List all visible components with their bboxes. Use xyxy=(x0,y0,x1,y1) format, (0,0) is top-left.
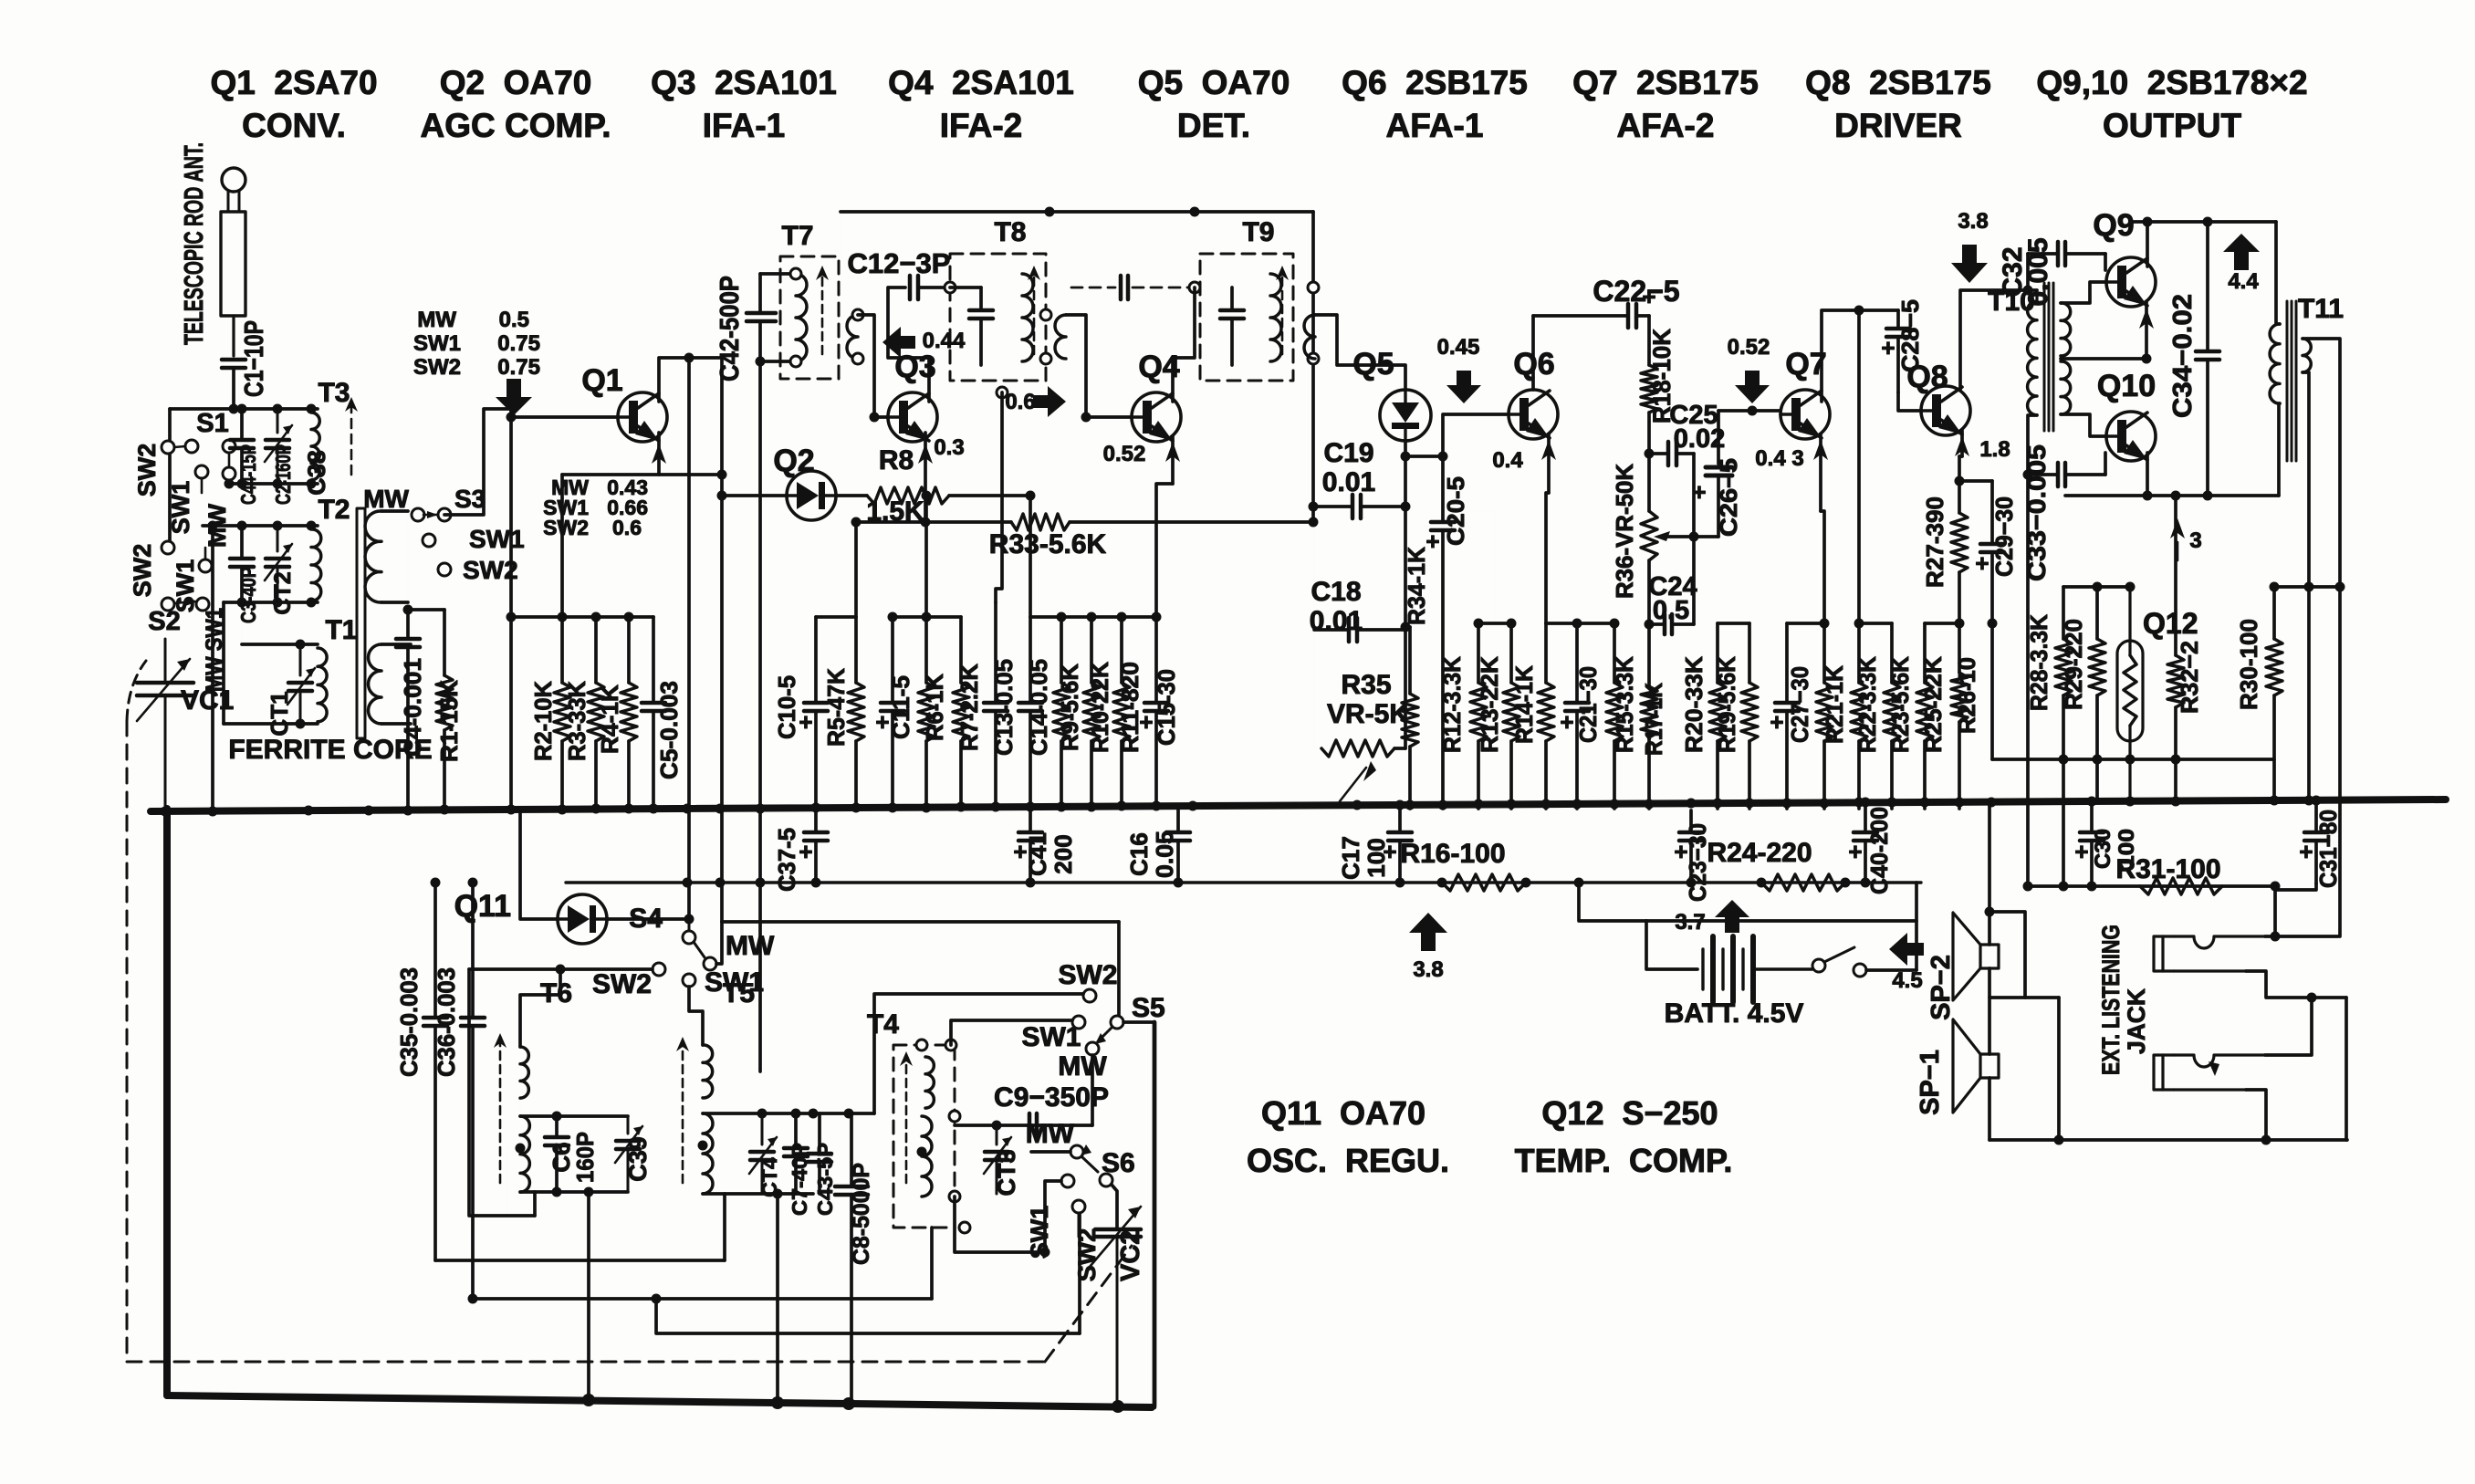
svg-text:C31−80: C31−80 xyxy=(2314,810,2342,888)
svg-text:C40-200: C40-200 xyxy=(1865,807,1893,894)
T4 tuning arrow xyxy=(905,1057,908,1183)
svg-text:R12-3.3K: R12-3.3K xyxy=(1438,656,1466,753)
power switch xyxy=(1812,959,1825,972)
coil T1 xyxy=(318,648,327,722)
wire speaker hot line xyxy=(2274,585,2340,589)
thick right vertical xyxy=(1153,1022,1157,1407)
wire SP2 bottom stub xyxy=(1988,968,1991,998)
svg-text:T1: T1 xyxy=(325,615,357,645)
svg-text:R13-22K: R13-22K xyxy=(1476,656,1503,753)
wire top rail IF xyxy=(841,210,1313,214)
wire Q1 collector up xyxy=(659,358,722,402)
svg-text:R14-1K: R14-1K xyxy=(1510,665,1538,744)
svg-text:R9-5.6K: R9-5.6K xyxy=(1056,664,1083,751)
svg-text:R1-15K: R1-15K xyxy=(435,680,463,762)
IF transformer T9 box xyxy=(1200,254,1293,381)
wire T1 top rail xyxy=(242,643,318,646)
svg-text:R8: R8 xyxy=(879,445,914,476)
svg-text:+: + xyxy=(1674,838,1687,865)
T9 primary coil xyxy=(1270,274,1281,361)
svg-text:0.3: 0.3 xyxy=(934,435,964,460)
svg-text:0.01: 0.01 xyxy=(1322,467,1375,497)
svg-text:JACK: JACK xyxy=(2123,988,2150,1054)
wire C33 to R31 xyxy=(2026,475,2030,886)
svg-text:Q2: Q2 xyxy=(773,444,814,478)
wire long vertical Q1-S4 xyxy=(687,358,691,919)
svg-text:+: + xyxy=(1013,838,1027,865)
wire T9 sec to Q5 xyxy=(1315,315,1405,390)
wire Q4 emitter down xyxy=(1171,436,1175,484)
bus junction dots xyxy=(161,807,171,817)
svg-text:S1: S1 xyxy=(196,409,228,438)
T6 tuning arrow xyxy=(499,1039,502,1183)
svg-text:C1−10P: C1−10P xyxy=(240,320,269,397)
svg-text:+: + xyxy=(1560,708,1573,736)
svg-text:200: 200 xyxy=(1050,834,1077,873)
svg-text:DRIVER: DRIVER xyxy=(1834,107,1962,144)
antenna neck xyxy=(227,192,230,212)
capacitor C3-40P xyxy=(240,526,244,559)
wire R12 feed xyxy=(1443,511,1495,623)
T9 internal cap xyxy=(1230,287,1234,310)
wire T8 sec to Q4 xyxy=(1066,315,1132,417)
wire rail R14-C21-R15 xyxy=(1546,622,1614,625)
svg-text:SW1: SW1 xyxy=(172,559,199,613)
svg-text:R34-1K: R34-1K xyxy=(1403,547,1430,625)
wire web line D xyxy=(656,1299,1080,1333)
wire T1 secondary to S3 xyxy=(410,616,412,644)
T8 internal cap xyxy=(979,287,983,310)
trimmer C2-160P xyxy=(266,438,289,443)
wire S3 to Q1 rail xyxy=(444,409,511,515)
wire battery left lead xyxy=(1646,921,1697,969)
svg-text:R36-VR-50K: R36-VR-50K xyxy=(1611,464,1638,599)
arrow 0.44 xyxy=(882,327,915,358)
svg-text:Q12: Q12 xyxy=(2143,607,2198,640)
dashed gang line vertical xyxy=(126,721,129,1362)
svg-text:TELESCOPIC ROD ANT.: TELESCOPIC ROD ANT. xyxy=(180,142,209,345)
svg-text:0.01: 0.01 xyxy=(1310,606,1363,636)
resistor R34-1K xyxy=(1408,627,1412,694)
svg-text:EXT. LISTENING: EXT. LISTENING xyxy=(2097,925,2125,1075)
svg-text:Q9,10 2SB178×2: Q9,10 2SB178×2 xyxy=(2036,64,2307,101)
wire battery branch xyxy=(1579,883,1646,921)
wire rail R12-R13 xyxy=(1478,622,1511,625)
wire jack lower tip lead xyxy=(2265,998,2312,1055)
wire T11 sec bottom to bus xyxy=(2303,372,2309,800)
wire Q4 collector up xyxy=(1173,287,1195,402)
svg-text:CT4: CT4 xyxy=(757,1157,781,1197)
T8 primary coil xyxy=(1022,274,1033,361)
svg-text:Q1 2SA70: Q1 2SA70 xyxy=(210,64,377,101)
wire Q9 emitter xyxy=(2145,301,2148,359)
trimmer CT1 xyxy=(288,681,312,685)
coil T2 xyxy=(311,529,321,601)
svg-text:T2: T2 xyxy=(318,495,350,525)
svg-text:MW: MW xyxy=(726,931,775,961)
T7 primary coil xyxy=(796,274,807,361)
svg-text:Q8: Q8 xyxy=(1906,360,1948,394)
antenna rod xyxy=(221,212,245,316)
wire C9 CT3 line xyxy=(955,1123,1092,1127)
svg-text:+: + xyxy=(1848,838,1862,865)
wire Q9 collector xyxy=(2146,222,2149,266)
resistor R10-22K xyxy=(1090,617,1093,683)
wire T10 center tap xyxy=(2061,357,2146,361)
wire R22 feed xyxy=(1857,310,1861,623)
svg-text:Q10: Q10 xyxy=(2097,369,2156,403)
wire output top rail xyxy=(2131,220,2276,224)
svg-text:0.52: 0.52 xyxy=(1103,442,1146,466)
T5 upper coil xyxy=(703,1045,713,1098)
T5 lower coil xyxy=(703,1113,713,1194)
wire T5 tap xyxy=(689,1145,703,1194)
wire switch to bus line xyxy=(1866,968,1916,972)
svg-text:4.5: 4.5 xyxy=(1892,968,1922,993)
wire S4 MW to long line xyxy=(716,922,722,964)
resistor R33-5.6K xyxy=(856,520,1011,524)
svg-text:Q5 OA70: Q5 OA70 xyxy=(1138,64,1290,101)
arrow supply 0.75 xyxy=(496,379,532,415)
wire web line C xyxy=(473,1297,932,1301)
wire Q7 collector xyxy=(1822,310,1859,402)
wire T11 sec top to jack xyxy=(2303,339,2340,936)
wire jack lower sleeve xyxy=(2246,1090,2266,1140)
svg-text:T7: T7 xyxy=(781,221,813,251)
wire R28 top rail xyxy=(2063,585,2130,589)
capacitor C4-0.001 xyxy=(406,610,410,639)
svg-text:MW: MW xyxy=(1026,1119,1075,1149)
wire C42 long vertical xyxy=(758,274,762,313)
svg-text:Q1: Q1 xyxy=(581,363,622,398)
wire T10 bottom lead xyxy=(2028,415,2037,475)
T7 tuning arrow xyxy=(821,271,824,354)
svg-text:Q12 S−250: Q12 S−250 xyxy=(1541,1094,1718,1132)
svg-text:VC2: VC2 xyxy=(1116,1230,1145,1281)
svg-text:DET.: DET. xyxy=(1177,107,1250,144)
antenna lead wire xyxy=(232,316,235,356)
svg-text:Q2 OA70: Q2 OA70 xyxy=(440,64,592,101)
wire Q5 cathode down xyxy=(1404,441,1407,627)
svg-text:SP−1: SP−1 xyxy=(1916,1050,1945,1115)
svg-text:C19: C19 xyxy=(1323,438,1373,468)
wire Q1 emitter to R2 xyxy=(562,473,722,476)
svg-text:SW2: SW2 xyxy=(133,444,161,497)
resistor R11-820 xyxy=(1120,617,1123,683)
T8 tuning arrow xyxy=(1033,271,1036,354)
wire S5 SW1 feed xyxy=(951,1020,1072,1045)
svg-text:R6-1K: R6-1K xyxy=(921,674,948,741)
svg-text:R20-33K: R20-33K xyxy=(1680,656,1707,753)
wire C18 left vertical xyxy=(1313,507,1315,748)
T7 secondary coil xyxy=(847,315,858,359)
svg-text:VR-5K: VR-5K xyxy=(1327,699,1409,729)
wire T5 to bottom rail xyxy=(776,1194,779,1403)
IF transformer T7 box xyxy=(780,256,839,379)
wire Q11 left lead xyxy=(520,810,558,919)
wire Q3 collector xyxy=(888,287,929,402)
svg-text:Q11: Q11 xyxy=(454,889,511,924)
coil C38 of T3 xyxy=(311,413,319,480)
T3 tuning arrow xyxy=(350,402,353,475)
svg-text:MW: MW xyxy=(1058,1051,1107,1082)
svg-text:AFA-1: AFA-1 xyxy=(1386,107,1484,144)
thick left vertical xyxy=(163,809,171,1395)
svg-text:0.75: 0.75 xyxy=(497,331,540,356)
svg-text:0.75: 0.75 xyxy=(497,355,540,380)
svg-text:3.8: 3.8 xyxy=(1413,957,1443,982)
wire rail R20-R19 xyxy=(1718,622,1749,625)
svg-text:+: + xyxy=(875,708,889,736)
svg-text:SW1: SW1 xyxy=(167,481,194,535)
svg-text:Q6 2SB175: Q6 2SB175 xyxy=(1342,64,1528,101)
svg-text:C34−0.02: C34−0.02 xyxy=(2168,294,2198,418)
resistor R2-10K xyxy=(560,617,564,683)
wire collector to C28 xyxy=(1859,308,1898,312)
svg-text:S5: S5 xyxy=(1132,993,1165,1023)
wire Q8 collector to T10 xyxy=(1960,290,2037,391)
wire T7 sec to Q3 base xyxy=(858,315,888,417)
svg-text:OUTPUT: OUTPUT xyxy=(2103,107,2242,144)
wire bottom rail T3 block xyxy=(229,482,318,486)
svg-text:Q8 2SB175: Q8 2SB175 xyxy=(1805,64,1991,101)
T8 pins xyxy=(997,387,1008,398)
svg-text:VC1: VC1 xyxy=(181,685,234,716)
svg-text:R29-220: R29-220 xyxy=(2060,619,2087,710)
variable capacitor VC1 xyxy=(137,681,193,685)
svg-text:AFA-2: AFA-2 xyxy=(1617,107,1715,144)
svg-text:T9: T9 xyxy=(1242,217,1274,247)
svg-text:0.52: 0.52 xyxy=(1728,335,1770,360)
svg-text:S4: S4 xyxy=(629,904,663,934)
T6 upper coil xyxy=(520,1047,528,1098)
wire rail R22-R23 xyxy=(1859,622,1892,625)
wire speakers mid rail xyxy=(1991,996,2059,999)
wire left vertical of block xyxy=(168,409,172,548)
capacitor C5-0.003 xyxy=(652,617,655,703)
svg-text:SP−2: SP−2 xyxy=(1927,955,1956,1020)
svg-text:CONV.: CONV. xyxy=(242,107,346,144)
wire left block to bus xyxy=(211,526,214,809)
svg-text:IFA-2: IFA-2 xyxy=(940,107,1022,144)
arrow 1.8 at Q8 emitter xyxy=(1955,436,1969,456)
wire S6 SW1 feed xyxy=(955,1181,1061,1252)
svg-text:S6: S6 xyxy=(1102,1148,1135,1178)
svg-text:SW1: SW1 xyxy=(469,525,525,553)
wire Q2 left lead xyxy=(722,494,787,497)
svg-text:R7-2.2K: R7-2.2K xyxy=(956,664,983,751)
T4 lower coil xyxy=(922,1116,932,1197)
wire S6 MW left xyxy=(1031,1150,1070,1154)
svg-text:+: + xyxy=(1770,708,1783,736)
wire Q6 collector xyxy=(1531,316,1535,390)
T9 secondary coil xyxy=(1304,315,1315,359)
svg-text:C42-500P: C42-500P xyxy=(715,276,745,381)
svg-text:Q4 2SA101: Q4 2SA101 xyxy=(888,64,1074,101)
svg-text:+: + xyxy=(1642,283,1655,310)
svg-text:+: + xyxy=(1975,549,1989,577)
svg-text:CT1: CT1 xyxy=(266,691,293,736)
wire R5 top vertical xyxy=(854,522,858,617)
svg-text:+: + xyxy=(2299,838,2313,865)
trimmer C39 xyxy=(616,1139,640,1144)
svg-text:SW2: SW2 xyxy=(129,544,156,598)
telescopic rod antenna ball xyxy=(222,168,245,192)
svg-text:R35: R35 xyxy=(1341,670,1391,700)
svg-text:T3: T3 xyxy=(318,378,350,408)
wire S4 long line xyxy=(722,920,1119,924)
svg-text:+: + xyxy=(1383,838,1396,865)
wire SW2 to T6 xyxy=(658,969,660,976)
wire mid rail T2 xyxy=(203,524,318,528)
dashed gang diagonal xyxy=(1045,1246,1132,1362)
jack lower contact xyxy=(2154,1055,2174,1090)
svg-text:AGC COMP.: AGC COMP. xyxy=(420,107,611,144)
IF transformer T4 box xyxy=(893,1045,955,1228)
wire T10 sec bottom to Q10 base xyxy=(2061,414,2105,436)
T4 upper coil xyxy=(925,1057,934,1108)
svg-text:C36-0.003: C36-0.003 xyxy=(433,967,460,1077)
svg-text:R30-100: R30-100 xyxy=(2235,619,2262,710)
resistor R9-5.6K xyxy=(1060,617,1063,683)
svg-text:OSC. REGU.: OSC. REGU. xyxy=(1247,1142,1449,1179)
wire r9-c15 rail xyxy=(1061,615,1156,619)
ferrite core bar xyxy=(357,508,365,738)
wire rail R25-R26 xyxy=(1925,622,1959,625)
trimmer CT4 xyxy=(750,1150,774,1155)
svg-text:+: + xyxy=(1692,478,1706,506)
arrow 3.8 below R16 xyxy=(1409,913,1447,951)
wire R6 top vertical xyxy=(924,496,928,617)
arrow 4.4 xyxy=(2223,234,2260,270)
wire SP1 bottom xyxy=(1988,1078,1991,1140)
svg-text:Q7 2SB175: Q7 2SB175 xyxy=(1572,64,1759,101)
svg-text:R2-10K: R2-10K xyxy=(529,681,557,761)
svg-text:CT3: CT3 xyxy=(993,1149,1020,1196)
svg-text:0.6: 0.6 xyxy=(612,516,642,539)
svg-text:SW2: SW2 xyxy=(543,516,589,539)
resistor R5-47K xyxy=(854,617,858,683)
svg-text:R3-33K: R3-33K xyxy=(563,681,590,761)
wire S5 pivot to right xyxy=(1123,1020,1154,1024)
wire T1 bottom rail xyxy=(224,722,318,726)
svg-text:C4-0.001: C4-0.001 xyxy=(399,658,426,757)
svg-text:+: + xyxy=(799,838,812,865)
wire T11 primary bottom xyxy=(2279,403,2280,496)
svg-text:T6: T6 xyxy=(540,978,572,1008)
wire T6 tap line xyxy=(507,1148,520,1216)
lower line junction dots xyxy=(683,878,693,888)
svg-text:C39: C39 xyxy=(624,1136,652,1182)
svg-text:C12−3P: C12−3P xyxy=(848,247,951,279)
wire jack upper tip lead xyxy=(2265,935,2338,938)
svg-text:0.4: 0.4 xyxy=(1492,448,1523,473)
svg-text:0.4 3: 0.4 3 xyxy=(1755,446,1803,471)
wire SP2 parallel branch xyxy=(1989,912,2025,998)
svg-text:R11-820: R11-820 xyxy=(1116,662,1144,753)
svg-text:C35-0.003: C35-0.003 xyxy=(395,967,423,1077)
svg-text:SW1: SW1 xyxy=(1021,1022,1081,1052)
wire C28 to Q8 base xyxy=(1898,392,1921,411)
svg-text:+: + xyxy=(2074,838,2088,865)
wire long vertical Q2-S4 xyxy=(720,358,724,922)
svg-text:T4: T4 xyxy=(867,1009,899,1040)
wire CT3 bottom rail xyxy=(955,1196,997,1197)
svg-text:R33-5.6K: R33-5.6K xyxy=(989,529,1107,559)
feedback line R31 xyxy=(2028,884,2275,888)
svg-text:S3: S3 xyxy=(454,485,486,513)
svg-text:0.5: 0.5 xyxy=(499,308,529,332)
wire T7 sec bottom xyxy=(841,359,858,379)
wire SP1 top xyxy=(1990,998,1992,1054)
resistor R6-1K xyxy=(924,617,928,683)
svg-text:4.4: 4.4 xyxy=(2228,269,2259,294)
wire jack bottom rail xyxy=(1989,1138,2347,1142)
svg-text:C16: C16 xyxy=(1125,832,1153,876)
svg-text:C2-160P: C2-160P xyxy=(271,444,295,505)
svg-text:3: 3 xyxy=(2189,528,2201,553)
wire Q11 right lead xyxy=(607,917,689,921)
svg-text:+: + xyxy=(1881,334,1895,361)
wire C25 riser xyxy=(1692,454,1696,624)
resistor R7-2.2K xyxy=(959,617,963,683)
wire S4 SW1 to T5 xyxy=(689,987,703,1045)
svg-text:R4-1K: R4-1K xyxy=(596,685,623,754)
wire T2 bottom rail xyxy=(224,601,318,604)
wire S6 pivot to VC2 xyxy=(1112,1185,1117,1229)
wire web line B xyxy=(435,1259,725,1262)
T9 tuning arrow xyxy=(1281,271,1284,354)
wire web line A xyxy=(469,967,560,971)
capacitor C1-10P xyxy=(222,358,245,362)
wire T6 to bottom rail xyxy=(587,1192,590,1400)
arrow 3 upward xyxy=(2170,518,2185,538)
svg-text:+: + xyxy=(799,708,812,736)
arrow 3.7 below R24 xyxy=(1715,900,1749,933)
T6 lower coil xyxy=(520,1116,529,1192)
wire bias rail R2-C5 xyxy=(511,615,653,619)
svg-text:0.45: 0.45 xyxy=(1437,335,1480,360)
dashed gang line horizontal xyxy=(127,1361,1045,1364)
svg-text:3.8: 3.8 xyxy=(1958,209,1988,234)
wire top rail T3 block xyxy=(170,407,318,411)
svg-text:MW: MW xyxy=(417,308,456,332)
wire Q7 emitter xyxy=(1819,434,1822,511)
T4 pins xyxy=(916,1040,927,1050)
resistor R3-33K xyxy=(594,617,598,683)
bottom rail junction dots xyxy=(582,1394,595,1406)
svg-text:SW2: SW2 xyxy=(1058,960,1117,990)
svg-text:C18: C18 xyxy=(1311,577,1361,607)
wire Q8 emitter xyxy=(1960,431,1964,456)
svg-text:TEMP. COMP.: TEMP. COMP. xyxy=(1515,1142,1733,1179)
svg-text:T8: T8 xyxy=(994,217,1026,247)
svg-text:C44-15P: C44-15P xyxy=(236,444,260,505)
variable capacitor VC2 xyxy=(1095,1228,1141,1232)
wire Q6 emitter xyxy=(1547,434,1551,493)
wire C26 to Q7 base xyxy=(1718,409,1781,413)
coil T2 secondary xyxy=(365,511,381,602)
wire jack right return xyxy=(2344,998,2348,1140)
svg-text:R5-47K: R5-47K xyxy=(822,668,850,747)
IF transformer T8 box xyxy=(950,254,1046,381)
svg-text:C5-0.003: C5-0.003 xyxy=(655,681,683,779)
wire T11 primary top xyxy=(2276,222,2280,324)
wire T5 block rails xyxy=(703,1112,874,1115)
wire rail C27-R21 xyxy=(1787,622,1824,625)
svg-text:C37-5: C37-5 xyxy=(773,828,800,892)
dashed VC1 curve xyxy=(127,661,146,721)
